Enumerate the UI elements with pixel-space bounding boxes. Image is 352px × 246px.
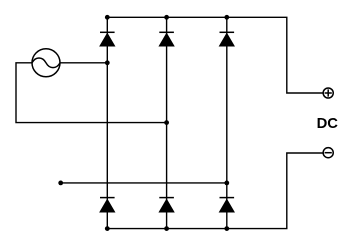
node bottom leg1 junction — [105, 226, 110, 231]
svg-text:DC: DC — [317, 116, 339, 132]
node top leg1 junction — [105, 15, 110, 20]
wire bottom DC- bus — [107, 153, 322, 229]
diode D3 — [220, 32, 235, 46]
wire top DC+ bus — [107, 17, 323, 93]
terminal DC+ — [323, 88, 333, 98]
node top leg2 junction — [164, 15, 169, 20]
diode D6 — [220, 198, 235, 212]
node phase3 junction — [224, 181, 229, 186]
wire phase leg 1 vertical — [106, 17, 108, 228]
wire source left return loop — [16, 63, 167, 123]
node bottom leg2 junction — [164, 226, 169, 231]
ac source V1 — [32, 49, 60, 77]
diode D2 — [159, 32, 174, 46]
node phase3 open terminal — [58, 181, 63, 186]
wire phase leg 2 vertical — [166, 17, 168, 228]
terminal DC- — [323, 148, 333, 158]
wire phase leg 3 vertical — [226, 17, 228, 228]
node top leg3 junction — [224, 15, 229, 20]
node phase1 junction — [105, 60, 110, 65]
wire source output to leg 1 — [60, 62, 107, 64]
diode D4 — [100, 198, 115, 212]
diode D5 — [159, 198, 174, 212]
wire phase 3 input — [61, 182, 227, 184]
node phase2 junction — [164, 120, 169, 125]
diode D1 — [100, 32, 115, 46]
node bottom leg3 junction — [224, 226, 229, 231]
